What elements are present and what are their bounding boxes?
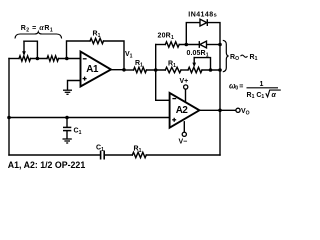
A1 minus mark [83, 58, 87, 60]
wire A2 inverting input [156, 99, 170, 101]
brace over R2 [15, 32, 62, 39]
svg-text:R1: R1 [250, 54, 258, 62]
wire pot1 wiper loop [24, 41, 37, 58]
node right rail at main line [218, 68, 222, 72]
terminal V- [182, 132, 186, 136]
resistor R2 series part [47, 56, 59, 61]
wire summing node vertical (20R1 branch and A2 inverting) [155, 45, 157, 101]
A1 plus mark [83, 77, 87, 81]
wire A1 feedback riser [67, 41, 91, 59]
svg-text:R1: R1 [93, 31, 101, 39]
terminal V+ [184, 85, 188, 89]
svg-text:=: = [239, 83, 243, 90]
wire V- stub [183, 122, 185, 132]
ground A1 [63, 90, 72, 94]
svg-text:V+: V+ [180, 78, 189, 85]
wire V1 to R1 [124, 69, 134, 71]
node A1 inverting / feedback [65, 57, 69, 61]
node V1 [122, 68, 126, 72]
resistor R1 feedback A1 [90, 38, 104, 43]
wire to summing junction [147, 69, 166, 71]
svg-text:A2: A2 [176, 105, 189, 116]
wire to A1 inverting input [59, 58, 81, 60]
wire shunt C1 stub top [66, 118, 68, 127]
A2 minus mark [172, 98, 176, 100]
wire top diode branch right [208, 23, 221, 45]
terminal VO [236, 108, 240, 112]
node diode junction left [185, 43, 189, 47]
svg-text:VO: VO [241, 108, 250, 116]
svg-text:V1: V1 [125, 51, 133, 59]
resistor R1 bottom [132, 152, 146, 157]
ground C1 shunt [63, 139, 72, 143]
wire A1 noninverting to ground [68, 81, 81, 90]
svg-text:α: α [272, 92, 277, 99]
op-amp A1 [81, 52, 112, 87]
wire V+ stub [185, 89, 187, 102]
wire right rail [219, 45, 221, 156]
svg-text:C1: C1 [74, 128, 82, 136]
wire pot1 wiper shaft [23, 41, 25, 51]
wire pot2 wiper loop [194, 58, 210, 70]
wire bottom rail [9, 154, 100, 156]
wire main input line [9, 58, 19, 60]
node left rail at C1 line [7, 116, 11, 120]
node shunt C1 tap [65, 116, 69, 120]
svg-text:1: 1 [260, 81, 264, 88]
wire A2 output [199, 109, 235, 111]
brace RO right [223, 40, 229, 72]
svg-text:0: 0 [235, 86, 238, 92]
wire 20R1 to diode junction [179, 44, 199, 46]
resistor R1 (V1 to A2 summing node) [134, 67, 147, 72]
svg-text:V−: V− [179, 139, 188, 146]
node summing junction [154, 68, 158, 72]
wire bottom rail right [146, 154, 220, 156]
svg-text:RO: RO [230, 54, 239, 62]
wire pot2 to right rail [202, 69, 220, 71]
svg-text:A1, A2: 1/2 OP-221: A1, A2: 1/2 OP-221 [8, 160, 86, 170]
pot1 wiper arrowhead [22, 51, 26, 56]
resistor R1 (summing node to pot2) [165, 67, 181, 72]
diode D2 bottom (IN4148) [199, 41, 206, 48]
wire between pot and series resistor [31, 58, 48, 60]
wire A1 output [111, 69, 124, 71]
svg-text:20R1: 20R1 [158, 33, 175, 41]
wire A2 noninverting line from left rail [9, 117, 170, 119]
resistor 20R1 [165, 42, 179, 47]
node pot1 wiper [36, 57, 40, 61]
svg-text:R1 C1: R1 C1 [247, 92, 265, 100]
formula fraction bar [247, 87, 279, 89]
wire bottom rail mid [105, 154, 133, 156]
diode D1 top (IN4148) [200, 19, 207, 26]
svg-text:R2 = αR1: R2 = αR1 [21, 23, 54, 33]
resistor R2 pot body [19, 56, 31, 61]
node output junction [218, 109, 222, 113]
node pot2 wiper [209, 68, 213, 72]
capacitor C1 shunt plates [63, 127, 71, 130]
pot2 wiper arrowhead [192, 63, 196, 68]
wire shunt C1 stub bottom [66, 131, 68, 138]
wire feedback to V1 node [104, 41, 125, 70]
capacitor C1 series plates (bottom) [101, 151, 105, 160]
formula radical sign [266, 90, 281, 97]
wire pot2 wiper shaft [193, 58, 195, 63]
wire to pot2 [181, 69, 188, 71]
op-amp A2 [170, 93, 200, 128]
wire top diode branch [186, 23, 200, 45]
wire 20R1 branch left [156, 44, 166, 46]
junction node dots [7, 43, 222, 120]
node diode junction right [218, 43, 222, 47]
A2 plus mark [172, 118, 176, 122]
wire left rail [8, 59, 10, 156]
svg-text:IN4148s: IN4148s [188, 12, 217, 19]
svg-text:A1: A1 [86, 64, 99, 75]
resistor 0.05R1 pot body [188, 67, 202, 72]
wire diode bottom branch right [207, 44, 221, 46]
